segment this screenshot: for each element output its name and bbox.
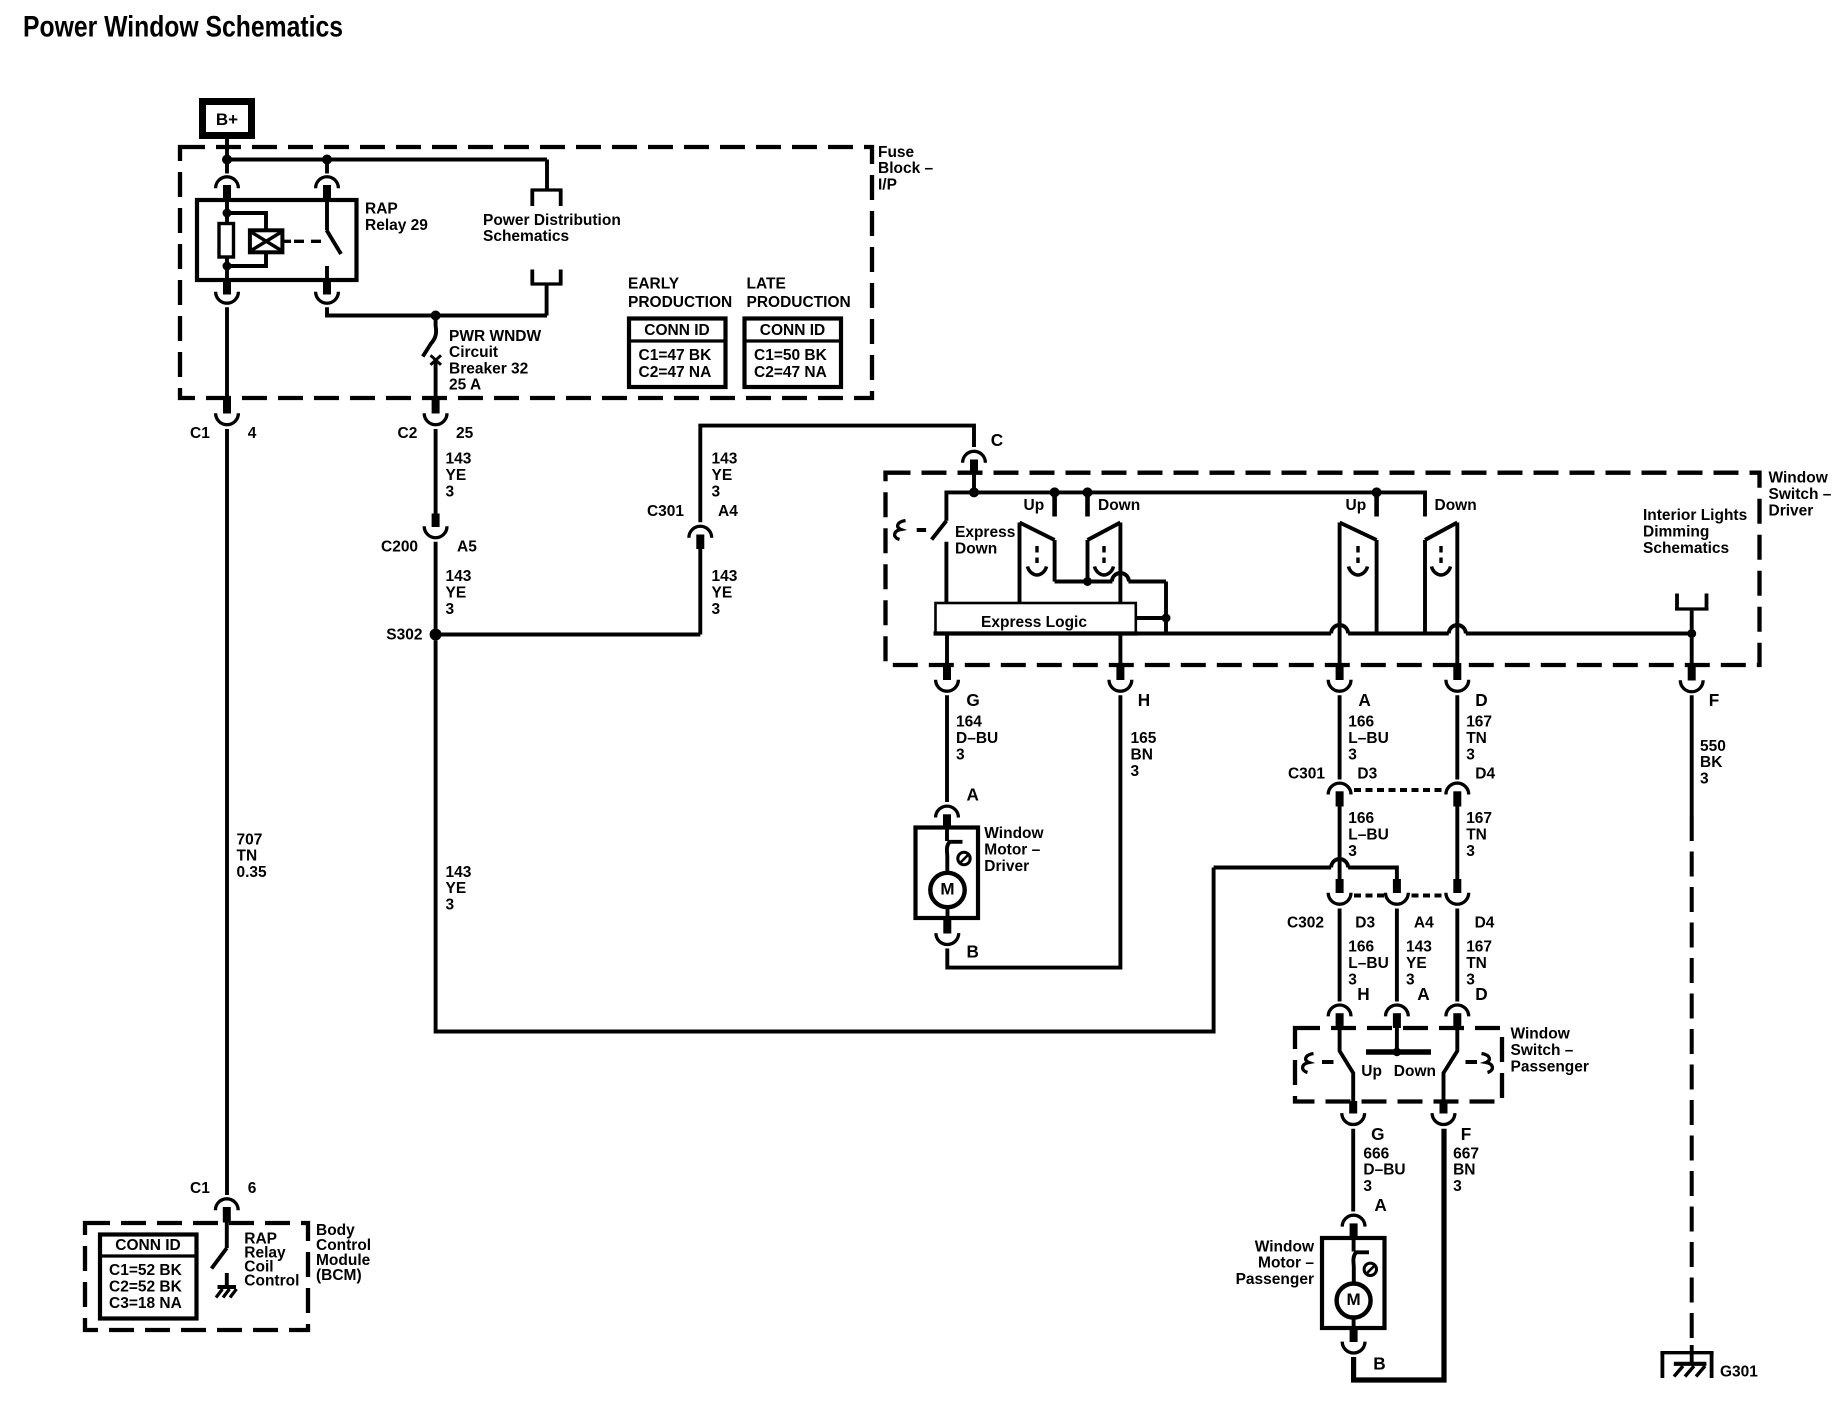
label Express Down [955, 524, 1015, 557]
battery feed B+ terminal [203, 102, 252, 136]
svg-text:C1: C1 [190, 425, 210, 442]
label 143 YE 3 (trunk) [446, 864, 472, 914]
svg-text:BK: BK [1700, 754, 1723, 771]
svg-text:D4: D4 [1475, 765, 1495, 782]
wire 143 YE S302 trunk down/right/up to C302 A4 [436, 641, 1214, 1032]
svg-text:166: 166 [1348, 714, 1374, 731]
svg-text:A4: A4 [718, 503, 738, 520]
svg-text:C200: C200 [381, 538, 418, 555]
wire rocker link to logic feed [1055, 573, 1166, 634]
svg-text:6: 6 [248, 1180, 257, 1197]
svg-text:Down: Down [1098, 497, 1140, 514]
svg-text:D3: D3 [1357, 765, 1377, 782]
svg-text:Window: Window [1511, 1026, 1571, 1043]
connector B passenger motor [1342, 1328, 1365, 1354]
svg-text:C302: C302 [1287, 914, 1324, 931]
svg-text:3: 3 [446, 897, 455, 914]
svg-text:3: 3 [712, 483, 721, 500]
svg-text:C2=47 NA: C2=47 NA [639, 364, 712, 381]
label 167 TN 3 (mid) [1466, 810, 1492, 860]
connector relay switch pin 30 top [316, 160, 339, 200]
svg-text:L–BU: L–BU [1348, 955, 1388, 972]
svg-text:Up: Up [1346, 497, 1367, 514]
wire express down to express logic [944, 542, 948, 604]
svg-text:D3: D3 [1355, 914, 1375, 931]
label RAP Relay Coil Control [244, 1231, 299, 1290]
label 666 D-BU 3 [1363, 1145, 1405, 1195]
label 166 L-BU 3 (upper) [1348, 714, 1388, 764]
svg-text:Window: Window [1769, 470, 1829, 487]
wire B+ down into fuse block [225, 139, 229, 161]
wire driver switch feed bus [946, 492, 1425, 520]
svg-text:3: 3 [956, 746, 965, 763]
label 143 YE 3 (C2 segment) [446, 451, 472, 501]
label EARLY PRODUCTION [628, 276, 732, 311]
wire 550 BK to ground [1690, 1345, 1694, 1364]
label Interior Lights Dimming Schematics [1643, 507, 1747, 557]
svg-text:666: 666 [1363, 1145, 1389, 1162]
node bus at up stub [1050, 487, 1060, 497]
off-page bracket G301 [1660, 1353, 1713, 1378]
resistor R relay coil suppression [219, 224, 234, 258]
label 167 TN 3 (lower) [1466, 939, 1492, 989]
wire S302 branch to C301 riser [436, 633, 701, 637]
svg-text:Switch –: Switch – [1511, 1042, 1574, 1059]
wire F pin to connector [1690, 634, 1694, 664]
svg-text:Relay 29: Relay 29 [365, 217, 428, 234]
label 667 BN 3 [1453, 1145, 1479, 1195]
wire 167 to passenger switch D [1455, 909, 1459, 1002]
svg-text:Up: Up [1024, 497, 1045, 514]
svg-text:D: D [1475, 690, 1487, 710]
svg-text:D–BU: D–BU [956, 730, 998, 747]
svg-text:CONN ID: CONN ID [115, 1237, 180, 1254]
svg-text:L–BU: L–BU [1348, 730, 1388, 747]
connector G passenger switch [1342, 1101, 1365, 1125]
svg-text:(BCM): (BCM) [316, 1267, 362, 1284]
svg-text:TN: TN [1466, 826, 1487, 843]
svg-text:A5: A5 [457, 538, 477, 555]
BCM switch blade [212, 1248, 227, 1269]
svg-text:C2=47 NA: C2=47 NA [754, 364, 827, 381]
svg-text:4: 4 [248, 425, 257, 442]
connector C driver switch [963, 451, 986, 473]
svg-text:707: 707 [237, 831, 263, 848]
switch rocker Up (driver, right pair) [1340, 523, 1377, 634]
connector C301 D4 [1446, 783, 1469, 806]
svg-text:Down: Down [955, 541, 997, 558]
label C200 / A5 [381, 538, 477, 555]
svg-text:CONN ID: CONN ID [644, 322, 709, 339]
svg-text:166: 166 [1348, 810, 1374, 827]
svg-text:C3=18 NA: C3=18 NA [109, 1295, 182, 1312]
express logic box [934, 603, 1138, 634]
passenger switch right arrow curl [1482, 1054, 1493, 1073]
connector C301 D3 [1328, 783, 1351, 806]
connector D driver switch [1446, 663, 1469, 691]
wire down contact stub left pair [1085, 492, 1090, 516]
svg-text:Dimming: Dimming [1643, 524, 1709, 541]
relay U RAP Relay 29 outline [197, 200, 357, 280]
switch rocker Down (driver, left pair) [1088, 523, 1121, 605]
svg-text:164: 164 [956, 714, 982, 731]
wire up contact stub left pair [1052, 492, 1057, 516]
connector D passenger switch [1446, 1005, 1469, 1028]
wire H pin from express logic [1118, 634, 1122, 664]
wire coil-to-switch dashed actuator link [283, 240, 323, 243]
svg-text:3: 3 [1131, 763, 1140, 780]
svg-text:D: D [1475, 984, 1487, 1004]
passenger switch H blade [1340, 1028, 1354, 1102]
wire 166 A to C301 [1338, 695, 1342, 779]
passenger switch common tee [1366, 1028, 1431, 1056]
wire motor to box bottom [946, 907, 950, 918]
wire 165 motor B loop to H [947, 695, 1120, 967]
wire coil loop upper [227, 213, 266, 231]
wire up contact stub right pair [1374, 492, 1379, 516]
svg-text:I/P: I/P [878, 177, 897, 194]
svg-text:143: 143 [446, 451, 472, 468]
relay switch lower contact [325, 266, 329, 281]
svg-text:A: A [1358, 690, 1370, 710]
node bus at right up stub [1372, 487, 1382, 497]
label Window Motor - Driver [984, 825, 1044, 875]
wire breaker to C2 [434, 358, 438, 397]
svg-text:Passenger: Passenger [1236, 1271, 1314, 1288]
wire riser to C301 [698, 549, 702, 635]
svg-text:G: G [966, 690, 979, 710]
svg-text:A: A [1374, 1195, 1386, 1215]
svg-text:Motor –: Motor – [984, 842, 1040, 859]
connector C302 D3 [1328, 879, 1351, 904]
wire express logic output stub [1136, 616, 1166, 620]
svg-text:YE: YE [712, 467, 733, 484]
node bus at F wire [1687, 629, 1696, 638]
svg-text:C301: C301 [647, 503, 684, 520]
passenger switch left dashed link [1322, 1060, 1334, 1064]
fuse block I/P dashed border [180, 147, 872, 398]
wire 143 YE C2 to C200 [434, 429, 438, 514]
svg-text:Driver: Driver [1769, 502, 1814, 519]
svg-text:D4: D4 [1475, 914, 1495, 931]
label C1 / 4 [190, 425, 257, 442]
svg-text:YE: YE [446, 880, 467, 897]
label RAP Relay 29 [365, 200, 428, 234]
svg-text:Down: Down [1435, 497, 1477, 514]
express down switch blade [932, 521, 947, 540]
BCM driver switch contact [225, 1223, 229, 1249]
ground G301 symbol [1674, 1364, 1707, 1377]
label 550 BK 3 [1700, 738, 1726, 788]
label Window Switch - Driver [1769, 470, 1832, 520]
switch rocker Up (driver, left pair) [1020, 523, 1055, 605]
passenger switch right dashed link [1466, 1060, 1478, 1064]
wire 143 to passenger switch A [1395, 909, 1399, 1002]
node junction bus at B+ [222, 155, 232, 165]
svg-text:RAP: RAP [365, 200, 398, 217]
connector C200 pin A5 [424, 514, 447, 538]
table CONN ID early production [629, 319, 726, 388]
circuit breaker CB32 element [423, 316, 441, 365]
label 143 YE 3 (below C301) [712, 568, 738, 618]
label C1 / 6 (BCM) [190, 1180, 257, 1197]
svg-text:3: 3 [1363, 1178, 1372, 1195]
label 167 TN 3 (upper) [1466, 714, 1492, 764]
switch rocker Down (driver, right pair) [1425, 523, 1457, 634]
svg-text:YE: YE [446, 585, 467, 602]
svg-text:Window: Window [984, 825, 1044, 842]
svg-text:H: H [1138, 690, 1150, 710]
ground chassis inside BCM [216, 1287, 237, 1298]
node junction bus at relay switch [322, 155, 332, 165]
motor M passenger [1337, 1284, 1371, 1318]
label Power Distribution Schematics [483, 212, 621, 245]
svg-text:C301: C301 [1288, 765, 1325, 782]
label Fuse Block - I/P [878, 144, 934, 194]
svg-text:D–BU: D–BU [1363, 1162, 1405, 1179]
label Body Control Module (BCM) [316, 1222, 371, 1284]
svg-text:Window: Window [1255, 1238, 1315, 1255]
wire 707 TN from C1 to BCM [225, 429, 229, 1195]
svg-text:TN: TN [1466, 955, 1487, 972]
wire rocker D leg through bus hop [1455, 523, 1459, 665]
svg-text:Switch –: Switch – [1769, 486, 1832, 503]
svg-text:PWR WNDW: PWR WNDW [449, 328, 541, 345]
svg-text:3: 3 [446, 483, 455, 500]
svg-text:LATE: LATE [747, 276, 786, 293]
svg-text:B: B [1373, 1353, 1385, 1373]
svg-text:S302: S302 [386, 626, 422, 643]
svg-text:C1=52 BK: C1=52 BK [109, 1262, 183, 1279]
svg-text:3: 3 [1348, 746, 1357, 763]
svg-text:PRODUCTION: PRODUCTION [628, 294, 732, 311]
connector relay coil pin 85 top [216, 160, 239, 200]
svg-text:143: 143 [446, 568, 472, 585]
svg-text:Power Window Schematics: Power Window Schematics [23, 11, 343, 44]
wire motor to box bottom [1352, 1318, 1356, 1329]
svg-text:3: 3 [1453, 1178, 1462, 1195]
node express logic output junction [1162, 614, 1171, 623]
wire relay coil to C1 [225, 307, 229, 398]
connector relay coil pin 86 bottom [216, 280, 239, 303]
svg-text:Down: Down [1394, 1063, 1436, 1080]
svg-text:TN: TN [1466, 730, 1487, 747]
svg-text:CONN ID: CONN ID [760, 322, 825, 339]
svg-text:0.35: 0.35 [237, 864, 268, 881]
relay switch upper contact [325, 200, 329, 231]
svg-text:Block –: Block – [878, 160, 934, 177]
label 707 TN 0.35 [237, 831, 268, 881]
express down switch dashed link [917, 528, 926, 532]
window switch passenger dashed border [1295, 1028, 1502, 1102]
svg-text:Fuse: Fuse [878, 144, 915, 161]
svg-text:167: 167 [1466, 939, 1492, 956]
svg-text:BN: BN [1453, 1162, 1475, 1179]
node bus at C [969, 487, 979, 497]
svg-text:C1=47 BK: C1=47 BK [639, 347, 713, 364]
label 166 L-BU 3 (lower) [1348, 939, 1388, 989]
dashed connector tie C302 left [1354, 894, 1385, 898]
svg-text:G301: G301 [1720, 1364, 1758, 1381]
svg-text:C: C [991, 430, 1003, 450]
label C2 / 25 [398, 425, 474, 442]
svg-text:Interior Lights: Interior Lights [1643, 507, 1747, 524]
svg-text:25: 25 [456, 425, 474, 442]
label 164 D-BU 3 [956, 714, 998, 764]
svg-text:3: 3 [1348, 971, 1357, 988]
connector H driver switch [1109, 663, 1132, 691]
svg-text:A: A [1417, 984, 1429, 1004]
wire 164 G to motor A [945, 695, 949, 802]
label 166 L-BU 3 (mid) [1348, 810, 1388, 860]
connector A passenger switch [1386, 1005, 1409, 1028]
svg-text:3: 3 [446, 601, 455, 618]
label Up Down (passenger) [1361, 1063, 1436, 1080]
svg-text:EARLY: EARLY [628, 276, 680, 293]
node coil loop bottom [223, 262, 232, 271]
connector C301 pin A4 inline [689, 526, 712, 549]
express down switch arrow curl [895, 521, 906, 540]
svg-text:M: M [1347, 1290, 1361, 1309]
label LATE PRODUCTION [747, 276, 851, 311]
svg-text:167: 167 [1466, 714, 1492, 731]
svg-text:YE: YE [446, 467, 467, 484]
svg-text:Express: Express [955, 524, 1015, 541]
node link at down rocker [1083, 577, 1092, 586]
svg-text:Motor –: Motor – [1258, 1255, 1314, 1272]
window motor passenger box [1322, 1238, 1385, 1328]
svg-text:YE: YE [712, 585, 733, 602]
passenger switch left arrow curl [1303, 1054, 1314, 1073]
dashed connector tie C302 right [1412, 894, 1445, 898]
wire interior lights to bus [1690, 611, 1694, 634]
svg-text:F: F [1461, 1124, 1472, 1144]
table CONN ID BCM [100, 1235, 197, 1319]
connector C302 A4 [1386, 879, 1409, 904]
wire 167 D to C301 [1455, 695, 1459, 779]
wire C301 up and over to driver switch C [700, 426, 974, 523]
node junction breaker tap [431, 311, 441, 321]
svg-text:667: 667 [1453, 1145, 1479, 1162]
connector A passenger motor [1342, 1215, 1365, 1238]
BCM ground contact [225, 1273, 229, 1287]
BCM dashed border [85, 1223, 308, 1330]
wire 166 to passenger switch H [1338, 909, 1342, 1002]
svg-text:PRODUCTION: PRODUCTION [747, 294, 851, 311]
label 143 YE 3 (above C301) [712, 451, 738, 501]
wire C pin into bus [972, 473, 976, 492]
label 143 YE 3 (lower) [1406, 939, 1432, 989]
motor M driver [930, 873, 964, 907]
connector C2 pin 25 [424, 398, 447, 425]
connector C1 pin 6 BCM [215, 1199, 238, 1223]
label C301 / A4 [647, 503, 738, 520]
svg-text:TN: TN [237, 848, 258, 865]
wire 167 C301 to C302 [1455, 807, 1459, 880]
svg-text:Power Distribution: Power Distribution [483, 212, 621, 229]
wire power distribution to breaker bus [545, 284, 549, 316]
wire bus drop to power distribution [545, 160, 549, 191]
svg-text:167: 167 [1466, 810, 1492, 827]
driver motor thermal switch [947, 828, 970, 873]
off-page bracket power distribution bottom [531, 270, 563, 285]
wire feed bus inside fuse block [227, 158, 547, 162]
wire rocker A leg through bus hop [1338, 523, 1342, 665]
svg-text:YE: YE [1406, 955, 1427, 972]
svg-text:143: 143 [446, 864, 472, 881]
svg-text:F: F [1709, 690, 1720, 710]
passenger switch D blade [1444, 1028, 1458, 1102]
connector C302 D4 [1446, 879, 1469, 904]
connector A driver motor [936, 806, 959, 828]
svg-text:Driver: Driver [984, 858, 1029, 875]
window switch driver dashed border [886, 473, 1760, 665]
svg-text:Passenger: Passenger [1511, 1058, 1589, 1075]
wire relay switch to breaker bus [327, 307, 547, 315]
off-page bracket interior lights dimming [1675, 594, 1709, 610]
off-page bracket power distribution top [531, 190, 563, 206]
svg-text:Schematics: Schematics [1643, 540, 1729, 557]
svg-text:143: 143 [1406, 939, 1432, 956]
svg-text:G: G [1371, 1124, 1384, 1144]
wire G pin from express logic [945, 634, 949, 664]
wire 667 motor B loop to F [1354, 1129, 1444, 1380]
svg-text:25 A: 25 A [449, 376, 481, 393]
wire 550 BK dashed segment [1690, 816, 1694, 1345]
table CONN ID late production [745, 319, 842, 388]
relay coil element (box with X) [250, 230, 283, 252]
svg-text:B+: B+ [216, 110, 238, 129]
svg-text:3: 3 [712, 601, 721, 618]
svg-text:A4: A4 [1414, 914, 1434, 931]
svg-text:3: 3 [1406, 971, 1415, 988]
svg-text:Up: Up [1361, 1063, 1382, 1080]
node bus at down stub [1083, 487, 1093, 497]
label 143 YE 3 (C200 segment) [446, 568, 472, 618]
svg-text:550: 550 [1700, 738, 1726, 755]
svg-text:Control: Control [244, 1273, 299, 1290]
svg-text:3: 3 [1348, 843, 1357, 860]
connector H passenger switch [1328, 1005, 1351, 1028]
svg-text:Schematics: Schematics [483, 228, 569, 245]
connector F driver switch [1680, 663, 1703, 692]
window motor driver box [916, 828, 979, 919]
label Window Motor - Passenger [1236, 1238, 1315, 1288]
label 165 BN 3 [1131, 730, 1157, 780]
svg-text:C1: C1 [190, 1180, 210, 1197]
svg-text:Breaker 32: Breaker 32 [449, 360, 528, 377]
svg-text:143: 143 [712, 451, 738, 468]
svg-text:166: 166 [1348, 939, 1374, 956]
connector A driver switch [1328, 663, 1351, 691]
connector F passenger switch [1432, 1101, 1455, 1125]
connector G driver switch [936, 663, 959, 691]
connector C1 pin 4 [216, 398, 239, 425]
wire coil loop lower [227, 252, 266, 266]
svg-text:L–BU: L–BU [1348, 826, 1388, 843]
node coil loop top [223, 209, 232, 218]
svg-text:A: A [967, 784, 979, 804]
svg-text:3: 3 [1466, 843, 1475, 860]
svg-text:Circuit: Circuit [449, 344, 498, 361]
wire driver switch output bus [936, 625, 1692, 634]
svg-text:B: B [967, 942, 979, 962]
wire relay coil vertical [225, 200, 229, 282]
svg-text:H: H [1357, 984, 1369, 1004]
dashed connector tie C301 [1354, 788, 1444, 792]
wire 550 BK solid segment [1690, 695, 1694, 816]
wire 166 C301 to C302 [1338, 807, 1342, 880]
